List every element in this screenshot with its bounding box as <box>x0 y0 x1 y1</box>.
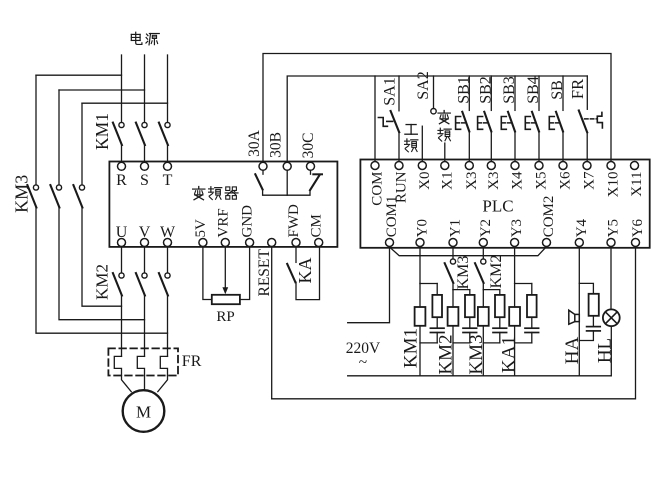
PLC output terminal Y0 <box>415 219 431 247</box>
PLC input terminal RUN <box>394 162 410 204</box>
contactor KM1 pole 3 <box>159 122 170 145</box>
PLC box <box>360 160 649 248</box>
wire FR to motor lead 3 <box>158 376 168 392</box>
wire Y6 to RESET (outer loop) <box>272 247 636 399</box>
svg-text:KM3: KM3 <box>455 256 472 290</box>
label SA2 <box>415 71 432 99</box>
terminal 30B of inverter <box>283 162 291 170</box>
PLC input terminal X1 <box>439 162 455 190</box>
PLC input terminal X10 <box>606 162 622 198</box>
wire SA2 to X1 <box>444 143 446 161</box>
overload FR heater element 3 <box>160 356 167 375</box>
PLC output terminal Y6 <box>630 218 646 246</box>
svg-text:X5: X5 <box>534 172 550 190</box>
wire tap phase 1 to KM3 column 1 <box>36 74 122 76</box>
relay contact 30B common lead <box>286 170 288 195</box>
svg-text:S: S <box>140 172 149 189</box>
svg-text:X10: X10 <box>606 172 622 198</box>
wire inverter V to KM2 <box>144 247 146 273</box>
svg-text:Y3: Y3 <box>509 219 525 237</box>
svg-text:FWD: FWD <box>286 204 302 238</box>
wire GND to RP <box>240 247 250 300</box>
svg-text:SB1: SB1 <box>456 76 473 104</box>
pushbutton SB2 <box>478 76 492 161</box>
wire FR to motor lead 1 <box>122 376 132 392</box>
terminal T of inverter <box>163 162 173 189</box>
wire KM1 pole 1 to inverter terminal <box>121 145 123 162</box>
svg-text:COM2: COM2 <box>541 196 557 238</box>
pushbutton SB <box>549 76 563 161</box>
svg-text:COM1: COM1 <box>384 196 400 238</box>
label 变频 <box>438 111 451 142</box>
wire power phase 2 vertical <box>144 55 146 122</box>
wire power phase 1 vertical <box>121 55 123 122</box>
wire Y4 to return bus (HA branch main) <box>578 247 580 376</box>
svg-text:X7: X7 <box>582 171 598 190</box>
label SB <box>549 80 566 100</box>
buzzer HA <box>569 310 580 324</box>
svg-text:X11: X11 <box>629 172 645 197</box>
svg-text:X6: X6 <box>558 171 574 190</box>
svg-text:FR: FR <box>182 353 202 370</box>
svg-text:Y1: Y1 <box>448 219 464 237</box>
label SB2 <box>478 76 495 104</box>
contactor KM3 pole 3 <box>73 185 84 208</box>
label FR (overload) <box>182 353 202 370</box>
svg-text:SA2: SA2 <box>415 71 432 99</box>
svg-text:KM2: KM2 <box>436 334 457 374</box>
PLC output terminal COM1 <box>384 196 400 247</box>
svg-text:HA: HA <box>562 337 583 365</box>
svg-text:Y6: Y6 <box>630 218 646 237</box>
wire KM3 column 2 upper <box>58 90 60 185</box>
svg-text:X0: X0 <box>417 172 433 190</box>
label HA <box>562 337 583 365</box>
svg-text:R: R <box>116 172 127 189</box>
PLC input terminal COM <box>370 162 386 206</box>
contactor KM1 pole 2 <box>136 122 147 145</box>
pushbutton SB4 <box>525 76 539 161</box>
svg-text:~: ~ <box>359 354 367 371</box>
motor M <box>123 390 165 432</box>
svg-text:SB4: SB4 <box>525 76 542 104</box>
svg-text:Y4: Y4 <box>574 218 590 237</box>
wire relay contact common bus <box>263 190 310 196</box>
svg-text:PLC: PLC <box>482 197 513 216</box>
svg-text:CM: CM <box>309 214 325 237</box>
terminal 30C of inverter <box>307 162 315 170</box>
selector SA2 (变频 position) <box>431 76 436 114</box>
wire COM1-COM2 common bus <box>389 247 546 256</box>
label RESET <box>256 249 273 297</box>
label 工频 <box>405 125 418 152</box>
label KA <box>295 258 315 284</box>
svg-text:T: T <box>163 172 173 189</box>
label KM1 <box>92 113 112 150</box>
wire KM1 pole 3 to inverter terminal <box>167 145 169 162</box>
svg-text:VRF: VRF <box>215 208 231 237</box>
wire inverter W to KM2 <box>167 247 169 273</box>
wire inverter U to KM2 <box>121 247 123 273</box>
PLC input terminal X3 <box>464 162 480 190</box>
svg-text:SA1: SA1 <box>382 77 399 105</box>
wire 30B to button bus (inner) <box>287 76 587 162</box>
terminal FWD of inverter <box>286 204 302 247</box>
wire KM2 pole 1 to overload FR <box>121 296 123 357</box>
svg-text:KM1: KM1 <box>401 328 422 368</box>
label 220V <box>346 340 381 371</box>
terminal V of inverter <box>139 224 151 247</box>
svg-text:M: M <box>136 403 151 422</box>
label interlock KM3 <box>455 256 472 290</box>
wire COM1 to 220V <box>348 247 390 323</box>
label coil KM1 <box>401 328 422 368</box>
svg-text:Y2: Y2 <box>478 219 494 237</box>
contactor KM2 pole 2 <box>136 273 147 296</box>
PLC output terminal Y3 <box>509 219 525 247</box>
terminal U of inverter <box>116 224 128 247</box>
svg-text:30C: 30C <box>300 133 317 159</box>
svg-text:KM1: KM1 <box>92 113 112 150</box>
label SB1 <box>456 76 473 104</box>
output branch Y1: KM3 interlock + coil KM2 with RC <box>445 247 477 376</box>
inverter box 变频器 <box>109 162 337 247</box>
svg-text:KA1: KA1 <box>499 336 520 373</box>
contactor KM2 pole 1 <box>113 273 124 296</box>
svg-text:RP: RP <box>216 309 234 325</box>
relay contact 30C blade (NC) <box>310 170 322 190</box>
svg-text:W: W <box>160 224 176 241</box>
terminal R of inverter <box>116 162 127 189</box>
label KM3 <box>12 175 32 213</box>
svg-text:GND: GND <box>240 205 256 238</box>
label interlock KM2 <box>488 255 505 289</box>
svg-text:HL: HL <box>595 338 616 363</box>
svg-text:30A: 30A <box>246 129 263 157</box>
svg-text:SB: SB <box>549 80 566 100</box>
svg-text:KM3: KM3 <box>12 175 32 213</box>
label PLC <box>482 197 513 216</box>
label 电源 (power source) <box>131 32 159 45</box>
terminal RESET of inverter <box>268 239 276 247</box>
thermal contact FR (to X7) <box>579 76 603 161</box>
output branch Y0: coil KM1 with RC <box>415 247 444 376</box>
label SA1 <box>382 77 399 105</box>
svg-text:5V: 5V <box>193 219 209 238</box>
label 30B <box>267 132 284 158</box>
svg-text:RESET: RESET <box>256 249 273 297</box>
potentiometer RP <box>212 295 240 325</box>
PLC input terminal X4 <box>510 162 526 190</box>
wire power phase 3 vertical <box>167 55 169 122</box>
wire KM2 pole 2 to overload FR <box>144 296 146 357</box>
relay contact 30A blade (NO) <box>255 170 263 189</box>
terminal W of inverter <box>160 224 176 247</box>
contactor KM1 pole 1 <box>113 122 124 145</box>
wire 220V return bus <box>348 375 611 377</box>
wire tap phase 3 to KM3 column 3 <box>82 102 168 104</box>
svg-text:X4: X4 <box>510 171 526 190</box>
svg-text:30B: 30B <box>267 132 284 158</box>
relay contact KA (FWD-CM) <box>287 247 296 282</box>
svg-text:Y5: Y5 <box>606 219 622 237</box>
svg-text:KM2: KM2 <box>93 264 112 300</box>
svg-text:KA: KA <box>295 258 315 284</box>
contactor KM3 pole 1 <box>27 185 38 208</box>
wire 5V to RP <box>203 247 212 300</box>
overload FR heater element 2 <box>137 356 144 375</box>
wire KM1 pole 2 to inverter terminal <box>144 145 146 162</box>
wire FR to motor lead 2 <box>144 376 146 391</box>
svg-text:KM2: KM2 <box>488 255 505 289</box>
svg-text:SB3: SB3 <box>501 76 518 104</box>
wire tap phase 2 to KM3 column 2 <box>59 89 145 91</box>
svg-text:X3: X3 <box>486 172 502 190</box>
label 30A <box>246 129 263 157</box>
thermal overload FR dashed box <box>108 348 178 375</box>
label HL <box>595 338 616 363</box>
selector SA1 (工频 position) <box>378 76 399 161</box>
interlock contact KM3 on Y1 <box>0 0 1 1</box>
wire KM3 pole 1 down and across to W phase <box>36 208 168 334</box>
PLC input terminal X7 <box>582 162 598 190</box>
PLC output terminal COM2 <box>541 196 557 247</box>
svg-text:U: U <box>116 224 128 241</box>
terminal GND of inverter <box>240 205 256 247</box>
PLC input terminal X3 <box>486 162 502 190</box>
label coil KM3 <box>466 334 487 374</box>
wire KM3 pole 3 down and across to U phase <box>82 208 122 307</box>
output branch Y3: coil KA1 with RC <box>509 247 538 376</box>
label coil KA1 <box>499 336 520 373</box>
terminal S of inverter <box>140 162 149 189</box>
wire X0 stub (工频 contact) <box>421 126 423 161</box>
svg-text:FR: FR <box>568 79 587 99</box>
contactor KM3 pole 2 <box>50 185 61 208</box>
PLC input terminal X0 <box>417 162 433 190</box>
PLC output terminal Y4 <box>574 218 590 246</box>
wire KM3 column 1 upper <box>35 75 37 185</box>
wire COM to button bus <box>374 76 376 161</box>
wire KM2 pole 3 to overload FR <box>167 296 169 357</box>
PLC output terminal Y5 <box>606 219 622 247</box>
svg-text:X1: X1 <box>439 172 455 190</box>
RC snubber on HA <box>579 283 600 340</box>
terminal CM of inverter <box>309 214 325 246</box>
wire KA to CM <box>296 247 320 300</box>
terminal 30A of inverter <box>259 162 267 170</box>
svg-text:V: V <box>139 224 151 241</box>
PLC input terminal X11 <box>629 162 645 197</box>
label 30C <box>300 133 317 159</box>
svg-text:Y0: Y0 <box>415 219 431 237</box>
label KM2 <box>93 264 112 300</box>
wire KM3 column 3 upper <box>81 103 83 185</box>
svg-text:KM3: KM3 <box>466 334 487 374</box>
terminal VRF of inverter <box>215 208 231 246</box>
PLC output terminal Y2 <box>478 219 494 247</box>
pushbutton SB1 <box>456 76 470 161</box>
PLC input terminal X5 <box>534 162 550 190</box>
wire Y5 to lamp <box>610 247 612 310</box>
contactor KM2 pole 3 <box>159 273 170 296</box>
label SB3 <box>501 76 518 104</box>
PLC output terminal Y1 <box>448 219 464 247</box>
svg-text:SB2: SB2 <box>478 76 495 104</box>
wire RESET down <box>271 247 273 399</box>
wire VRF wiper with arrow <box>222 247 228 294</box>
label FR (contact) <box>568 79 587 99</box>
overload FR heater element 1 <box>114 356 121 375</box>
wire KM3 pole 2 down and across to V phase <box>59 208 145 320</box>
svg-text:X3: X3 <box>464 172 480 190</box>
output branch Y2: KM2 interlock + coil KM3 with RC <box>475 247 507 376</box>
terminal 5V of inverter <box>193 219 209 247</box>
wire 30A to X10 (fault loop outer) <box>263 54 611 163</box>
label 变频器 (inverter) <box>193 187 238 200</box>
label coil KM2 <box>436 334 457 374</box>
label SB4 <box>525 76 542 104</box>
lamp HL <box>603 309 620 326</box>
PLC input terminal X6 <box>558 162 574 190</box>
pushbutton SB3 <box>501 76 515 161</box>
wire lamp to return bus <box>610 326 612 376</box>
